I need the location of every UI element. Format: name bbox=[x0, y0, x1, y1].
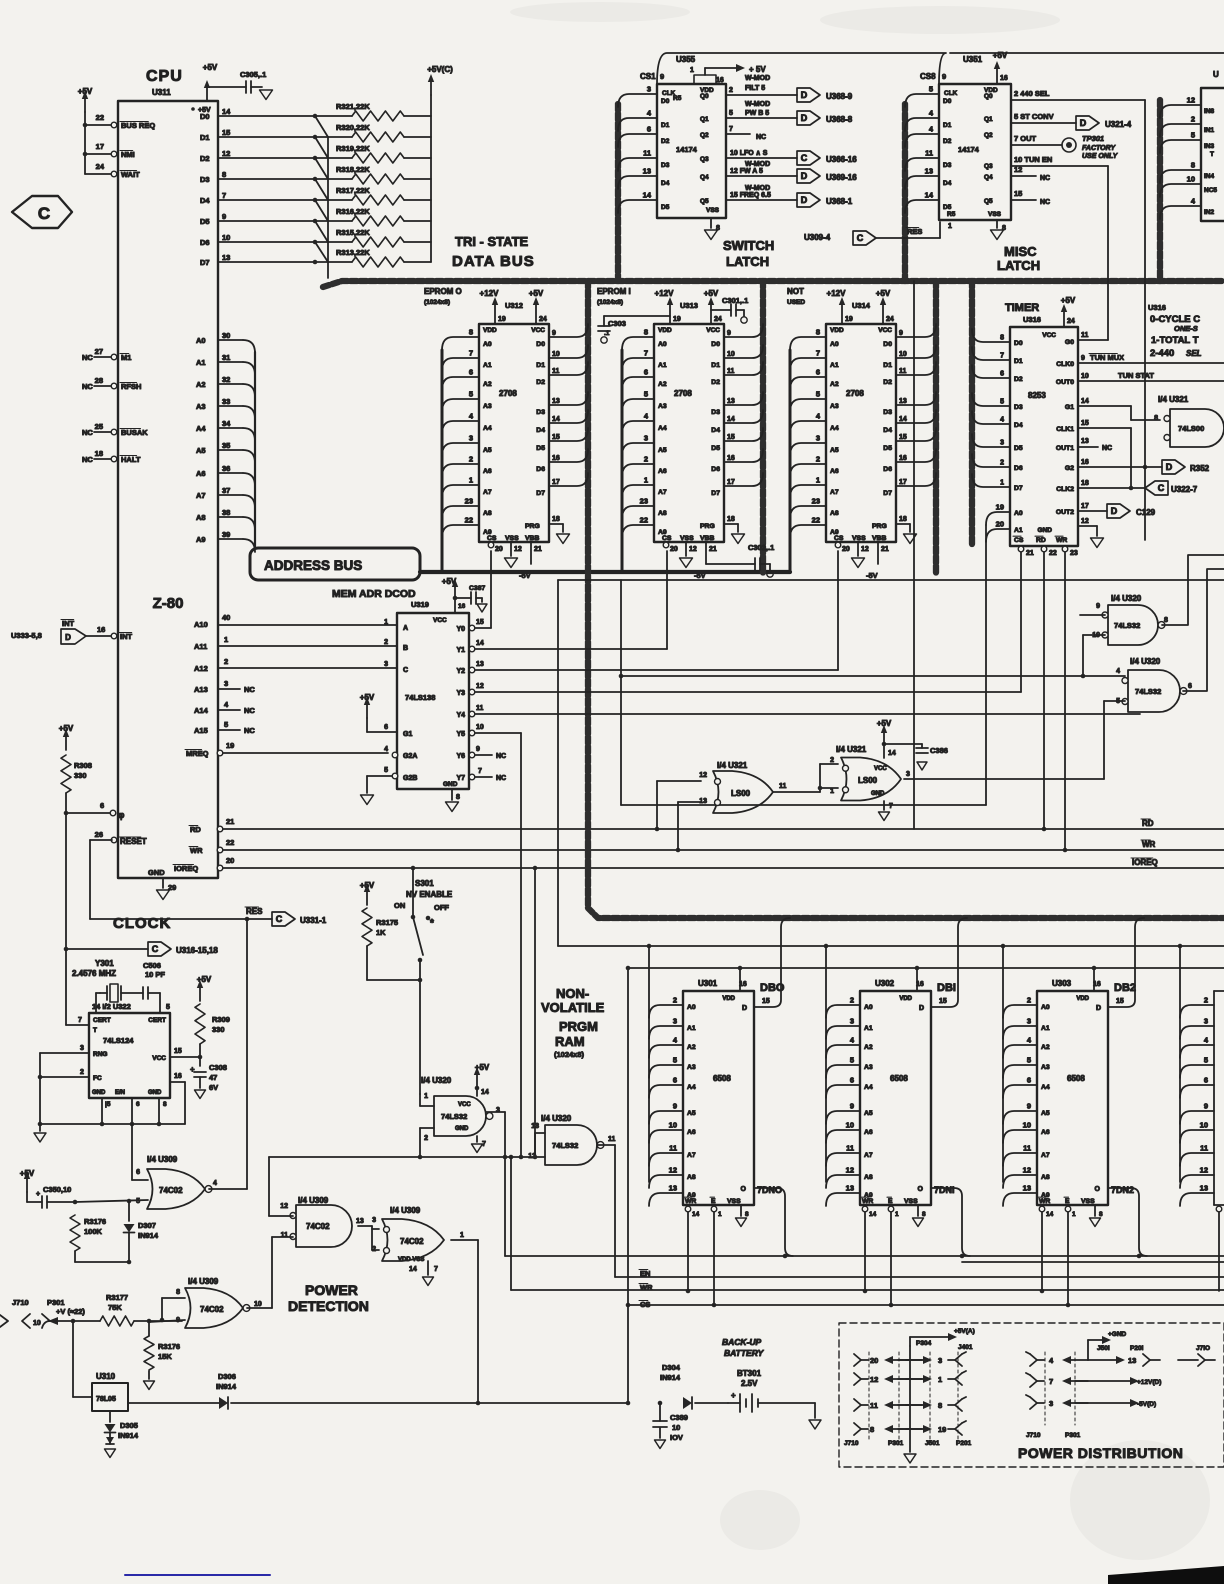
svg-text:9: 9 bbox=[476, 746, 480, 753]
svg-text:A9: A9 bbox=[864, 1192, 873, 1199]
svg-text:10 TUN EN: 10 TUN EN bbox=[1014, 155, 1052, 164]
node U316 D6 pin 2 bbox=[972, 454, 1023, 472]
node U314 VBB pin 21 -5V bbox=[866, 542, 889, 580]
node U316 CLK2 pin 18 bbox=[1056, 480, 1145, 493]
wire eprom2 address branch bbox=[789, 350, 792, 572]
node U312 D3 pin 13 bbox=[536, 392, 588, 416]
svg-text:D3: D3 bbox=[1014, 404, 1023, 411]
svg-text:D1: D1 bbox=[943, 122, 952, 129]
wire +V to U310 bbox=[73, 1321, 92, 1397]
svg-text:A3: A3 bbox=[687, 1064, 696, 1071]
node A5 pin 35 bbox=[196, 441, 255, 463]
wire U309a output to reset net bbox=[209, 1188, 247, 1190]
svg-text:U368-8: U368-8 bbox=[826, 115, 853, 124]
svg-text:6: 6 bbox=[384, 724, 388, 731]
svg-text:3: 3 bbox=[384, 661, 388, 668]
svg-text:11: 11 bbox=[608, 1136, 616, 1143]
svg-text:6: 6 bbox=[850, 1076, 854, 1085]
svg-text:VCC: VCC bbox=[706, 327, 720, 334]
svg-text:8253: 8253 bbox=[1028, 391, 1046, 400]
node Y3 pin 12 bbox=[469, 551, 1021, 695]
node U316 D1 pin 7 bbox=[972, 347, 1023, 365]
resistor R3175 1K bbox=[360, 881, 423, 982]
svg-text:16: 16 bbox=[97, 625, 105, 634]
svg-text:10: 10 bbox=[33, 1320, 41, 1327]
svg-text:13: 13 bbox=[846, 1184, 854, 1193]
svg-text:Q2: Q2 bbox=[700, 132, 709, 139]
svg-text:A0: A0 bbox=[864, 1004, 873, 1011]
svg-text:19: 19 bbox=[996, 503, 1004, 512]
connector J710 right bbox=[1178, 1345, 1215, 1366]
wire data-bus collector bbox=[327, 137, 329, 278]
crystal Y301 2.4576 MHZ bbox=[72, 959, 143, 1002]
svg-text:I/4 U321: I/4 U321 bbox=[836, 745, 867, 754]
svg-text:8: 8 bbox=[456, 794, 460, 801]
node D5 pin 9 bbox=[200, 212, 352, 226]
svg-text:+5V: +5V bbox=[360, 881, 375, 890]
svg-text:16: 16 bbox=[458, 603, 466, 610]
svg-text:330: 330 bbox=[212, 1025, 225, 1034]
node U351 Q1 ST CONV bbox=[984, 112, 1076, 123]
svg-text:20: 20 bbox=[996, 520, 1004, 529]
svg-text:VSS: VSS bbox=[904, 1198, 918, 1205]
svg-text:23: 23 bbox=[640, 497, 648, 506]
node U313 A4 pin 4 bbox=[622, 412, 667, 435]
svg-text:IN2: IN2 bbox=[1204, 209, 1215, 216]
svg-text:Q3: Q3 bbox=[984, 163, 993, 170]
svg-text:Y7: Y7 bbox=[456, 775, 465, 782]
node U316 D5 pin 3 bbox=[972, 434, 1023, 452]
svg-text:D3: D3 bbox=[711, 409, 720, 416]
node U319 pin2 B bbox=[384, 639, 388, 646]
svg-text:IOV: IOV bbox=[670, 1433, 683, 1442]
svg-text:17: 17 bbox=[96, 142, 104, 151]
svg-text:8: 8 bbox=[938, 1401, 942, 1410]
node U313 PRG pin 18 bbox=[724, 516, 745, 544]
svg-text:17: 17 bbox=[1081, 503, 1089, 510]
svg-text:A7: A7 bbox=[687, 1152, 696, 1159]
svg-text:9: 9 bbox=[942, 72, 946, 81]
label U303 bbox=[1052, 979, 1101, 988]
svg-text:1: 1 bbox=[948, 223, 952, 230]
svg-text:2: 2 bbox=[830, 757, 834, 764]
svg-text:NC: NC bbox=[756, 134, 766, 141]
node WR pin 22 bbox=[189, 838, 234, 855]
svg-text:MEM ADR DCOD: MEM ADR DCOD bbox=[332, 588, 416, 600]
wire U320b output bbox=[1183, 569, 1224, 691]
svg-text:16: 16 bbox=[727, 455, 735, 462]
svg-text:D: D bbox=[1166, 462, 1173, 472]
label U301 bbox=[698, 979, 747, 988]
svg-text:D1: D1 bbox=[200, 133, 210, 142]
node U312 A9 pin 22 bbox=[442, 516, 492, 539]
svg-text:A1: A1 bbox=[483, 362, 492, 369]
svg-text:21: 21 bbox=[709, 546, 717, 553]
svg-text:U366-16: U366-16 bbox=[826, 155, 857, 164]
svg-text:NMI: NMI bbox=[121, 150, 135, 159]
svg-text:NC: NC bbox=[1102, 445, 1112, 452]
svg-text:2-440: 2-440 bbox=[1150, 348, 1174, 359]
node U301 A1 pin 3 bbox=[649, 1017, 696, 1040]
timer U316 8253 bbox=[1010, 327, 1078, 546]
svg-text:15: 15 bbox=[174, 1048, 182, 1055]
svg-text:2 440 SEL: 2 440 SEL bbox=[1014, 89, 1050, 98]
svg-text:40: 40 bbox=[222, 613, 230, 622]
svg-text:C303: C303 bbox=[608, 319, 626, 328]
svg-text:74C02: 74C02 bbox=[306, 1222, 330, 1231]
svg-text:2708: 2708 bbox=[674, 389, 692, 398]
svg-text:.1: .1 bbox=[604, 330, 610, 337]
wire U309c output bbox=[247, 1307, 272, 1309]
svg-text:3: 3 bbox=[1049, 1399, 1053, 1408]
svg-text:23: 23 bbox=[812, 497, 820, 506]
svg-text:13: 13 bbox=[1200, 1184, 1208, 1193]
svg-text:IN1: IN1 bbox=[1204, 127, 1215, 134]
svg-text:22: 22 bbox=[226, 838, 234, 847]
svg-text:Q0: Q0 bbox=[984, 93, 993, 100]
gate U321c 1/4 74LS00 bbox=[1154, 395, 1224, 447]
eprom U313 2708 bbox=[654, 324, 724, 542]
flag R352 bbox=[1162, 460, 1210, 474]
svg-text:3: 3 bbox=[816, 434, 820, 443]
svg-text:C129: C129 bbox=[1136, 508, 1156, 517]
svg-text:13: 13 bbox=[727, 398, 735, 405]
svg-text:14: 14 bbox=[727, 416, 735, 423]
node RFSH pin 28 NC bbox=[82, 376, 141, 391]
svg-text:D0: D0 bbox=[1014, 340, 1023, 347]
svg-text:13: 13 bbox=[1081, 438, 1089, 445]
svg-text:10: 10 bbox=[1200, 1121, 1208, 1130]
svg-text:3: 3 bbox=[673, 1017, 677, 1026]
node RESET pin 26 bbox=[95, 830, 147, 846]
node U313 CS pin 20 bbox=[663, 542, 678, 553]
svg-text:VCC: VCC bbox=[874, 766, 887, 772]
svg-text:VSS: VSS bbox=[706, 207, 720, 214]
svg-text:+12V(D): +12V(D) bbox=[1137, 1379, 1161, 1386]
svg-text:2: 2 bbox=[1204, 996, 1208, 1005]
svg-text:3: 3 bbox=[1000, 440, 1004, 447]
svg-text:RESET: RESET bbox=[120, 837, 147, 846]
svg-text:2.4576 MHZ: 2.4576 MHZ bbox=[72, 969, 116, 978]
svg-text:5: 5 bbox=[644, 390, 648, 399]
wire U304 address drop bbox=[1179, 946, 1181, 1182]
svg-text:12: 12 bbox=[669, 1166, 677, 1175]
svg-text:VSS: VSS bbox=[680, 535, 694, 542]
node U303 WR pin 14 bbox=[1039, 1206, 1053, 1293]
node U312 A4 pin 4 bbox=[442, 412, 492, 435]
wire x628 drop bbox=[626, 966, 631, 1406]
svg-text:15: 15 bbox=[552, 434, 560, 441]
svg-text:NON-: NON- bbox=[556, 986, 589, 1001]
svg-text:+ 5V: + 5V bbox=[749, 65, 766, 74]
svg-text:D1: D1 bbox=[661, 122, 670, 129]
svg-text:+5V: +5V bbox=[197, 975, 212, 984]
svg-text:NC: NC bbox=[496, 753, 506, 760]
svg-text:15: 15 bbox=[222, 128, 230, 137]
svg-text:1: 1 bbox=[718, 1211, 722, 1218]
svg-text:Q5: Q5 bbox=[984, 198, 993, 205]
svg-text:D1: D1 bbox=[1014, 358, 1023, 365]
label U316 timer notes bbox=[1148, 303, 1202, 359]
svg-text:A8: A8 bbox=[864, 1174, 873, 1181]
node U302 A4 pin 6 bbox=[826, 1076, 873, 1099]
svg-text:D0: D0 bbox=[883, 341, 892, 348]
svg-text:1: 1 bbox=[938, 1375, 942, 1384]
cpu GND pin 29 bbox=[148, 868, 176, 900]
svg-text:36: 36 bbox=[222, 464, 230, 473]
node Y1 pin 14 bbox=[469, 551, 667, 652]
node U302 WR pin 14 bbox=[862, 1206, 876, 1293]
node IOREQ pin 20 bbox=[173, 856, 234, 873]
svg-text:10: 10 bbox=[727, 351, 735, 358]
svg-text:D306: D306 bbox=[218, 1372, 236, 1381]
label TIMER bbox=[1005, 302, 1041, 324]
flag U369-16 bbox=[797, 169, 857, 183]
node U316 A0 pin 19 bbox=[986, 503, 1023, 526]
node U303 A8 pin 12 bbox=[1003, 1166, 1050, 1189]
svg-text:6: 6 bbox=[647, 125, 651, 134]
node U351 D4 pin 13 bbox=[905, 167, 952, 190]
svg-text:3: 3 bbox=[644, 434, 648, 443]
node U314 PRG pin 18 bbox=[896, 516, 917, 544]
svg-text:R321,22K: R321,22K bbox=[336, 102, 370, 111]
svg-text:IN914: IN914 bbox=[660, 1373, 681, 1382]
svg-text:9: 9 bbox=[1027, 1102, 1031, 1111]
labels J710 P301 J501 P201 bbox=[844, 1440, 972, 1447]
svg-text:C: C bbox=[1158, 483, 1165, 493]
svg-text:10: 10 bbox=[254, 1301, 262, 1308]
svg-text:Y3: Y3 bbox=[456, 690, 465, 697]
svg-text:VDD: VDD bbox=[722, 996, 735, 1002]
svg-text:FC: FC bbox=[93, 1075, 102, 1082]
node A11 pin 1 bbox=[194, 635, 397, 651]
wire timer A0/A1 bus drop bbox=[621, 525, 986, 805]
svg-text:6508: 6508 bbox=[890, 1074, 908, 1083]
svg-text:3: 3 bbox=[850, 1017, 854, 1026]
node U301 A8 pin 12 bbox=[649, 1166, 696, 1189]
svg-text:22: 22 bbox=[640, 516, 648, 525]
node U352 IN8 pin 12 bbox=[1160, 96, 1215, 119]
svg-text:WR: WR bbox=[1039, 1198, 1050, 1205]
svg-text:VCC: VCC bbox=[152, 1055, 166, 1062]
+12V at U314 pin 19 bbox=[827, 289, 853, 324]
svg-text:D5: D5 bbox=[536, 445, 545, 452]
svg-text:21: 21 bbox=[881, 546, 889, 553]
node U316 OUT2 pin 17 bbox=[1056, 503, 1107, 516]
svg-text:BUSAK: BUSAK bbox=[121, 428, 148, 437]
svg-text:5: 5 bbox=[929, 85, 933, 94]
svg-text:(1024x8): (1024x8) bbox=[424, 299, 450, 306]
svg-text:TIMER: TIMER bbox=[1005, 302, 1039, 314]
wire bus-merge diagonal bbox=[315, 221, 328, 242]
svg-text:NC: NC bbox=[244, 685, 255, 694]
ground battery bbox=[809, 1403, 821, 1429]
svg-text:SEL: SEL bbox=[1186, 349, 1202, 358]
ram U303 6508 bbox=[1037, 991, 1108, 1205]
svg-text:14: 14 bbox=[1081, 398, 1089, 405]
svg-text:8: 8 bbox=[745, 1211, 749, 1218]
node U355 D4 pin 13 bbox=[618, 167, 670, 190]
svg-text:14: 14 bbox=[481, 1089, 489, 1096]
node U351 D1 pin 4 bbox=[905, 109, 952, 132]
svg-text:DBI: DBI bbox=[937, 982, 956, 994]
wire bus-merge diagonal bbox=[315, 158, 328, 179]
svg-text:ONE-S: ONE-S bbox=[1174, 324, 1198, 333]
resistor R3176b 15K bbox=[144, 1321, 181, 1390]
svg-text:D307: D307 bbox=[138, 1221, 156, 1230]
latch U351 14174 bbox=[920, 55, 1011, 220]
svg-text:W-MOD: W-MOD bbox=[745, 185, 770, 192]
svg-text:TP301: TP301 bbox=[1082, 134, 1104, 143]
label MEM ADR DCOD bbox=[332, 588, 429, 609]
svg-text:A0: A0 bbox=[196, 336, 206, 345]
svg-text:A3: A3 bbox=[658, 403, 667, 410]
svg-text:C308: C308 bbox=[209, 1063, 227, 1072]
+5V(C) pullup rail bbox=[427, 65, 453, 262]
wire E/N drop junction bbox=[128, 1201, 130, 1221]
svg-text:I/4 U321: I/4 U321 bbox=[1158, 395, 1189, 404]
svg-text:Y5: Y5 bbox=[456, 731, 465, 738]
node A2 pin 32 bbox=[196, 375, 255, 397]
svg-text:A8: A8 bbox=[830, 510, 839, 517]
svg-text:CS: CS bbox=[662, 535, 672, 542]
node U301 E pin 1 bbox=[711, 1206, 722, 1307]
node U316 G2 pin 16 bbox=[1065, 459, 1162, 472]
svg-text:1: 1 bbox=[1072, 1211, 1076, 1218]
ground U309d pins 14 7 bbox=[409, 1261, 438, 1286]
rope riser U351 bbox=[902, 104, 908, 281]
node NMI pin 17 bbox=[85, 142, 135, 159]
svg-text:D7: D7 bbox=[711, 490, 720, 497]
node U314 A9 pin 22 bbox=[790, 516, 839, 539]
svg-text:15K: 15K bbox=[158, 1352, 172, 1361]
ram U304 partial bbox=[1214, 991, 1224, 1205]
svg-text:74LS32: 74LS32 bbox=[1135, 687, 1161, 696]
svg-text:CS: CS bbox=[487, 535, 497, 542]
node U312 A7 pin 1 bbox=[442, 476, 492, 499]
svg-text:CPU: CPU bbox=[146, 68, 183, 85]
label POWER DETECTION bbox=[288, 1282, 369, 1314]
svg-text:2: 2 bbox=[729, 87, 733, 94]
svg-text:11: 11 bbox=[643, 149, 651, 158]
svg-text:+GND: +GND bbox=[1108, 1331, 1127, 1338]
svg-text:6: 6 bbox=[673, 1076, 677, 1085]
svg-text:Q4: Q4 bbox=[700, 174, 709, 181]
svg-text:19: 19 bbox=[673, 316, 681, 323]
latch U355 14174 bbox=[640, 55, 726, 218]
node U313 A5 pin 3 bbox=[622, 434, 667, 457]
svg-text:14: 14 bbox=[222, 107, 231, 116]
svg-text:18: 18 bbox=[552, 516, 560, 523]
wire DBI drop from rope bbox=[931, 918, 967, 1007]
svg-text:A2: A2 bbox=[1041, 1044, 1050, 1051]
node Y5 pin 10 bbox=[469, 724, 521, 1157]
node U313 A9 pin 22 bbox=[622, 516, 667, 539]
svg-text:U321-4: U321-4 bbox=[1105, 120, 1132, 129]
wire VDD stub U302 bbox=[915, 966, 920, 991]
svg-text:RD: RD bbox=[190, 825, 201, 834]
svg-text:2: 2 bbox=[469, 455, 473, 464]
wire U322 bottom pins to gnd rail bbox=[38, 1098, 185, 1126]
resistor R309 330 bbox=[195, 975, 230, 1057]
svg-text:+12V: +12V bbox=[480, 289, 500, 298]
svg-text:Y4: Y4 bbox=[456, 712, 465, 719]
svg-text:WAIT: WAIT bbox=[121, 170, 140, 179]
svg-text:D0: D0 bbox=[661, 98, 670, 105]
blue reference line bbox=[125, 1574, 270, 1576]
node A1 pin 31 bbox=[196, 353, 255, 375]
svg-text:Y1: Y1 bbox=[456, 647, 465, 654]
node U352 NC5 pin 10 bbox=[1160, 175, 1217, 198]
svg-text:U316-15,18: U316-15,18 bbox=[176, 946, 218, 955]
node U313 A6 pin 2 bbox=[622, 455, 667, 478]
node WAIT pin 24 bbox=[85, 162, 140, 179]
svg-text:D: D bbox=[742, 1005, 747, 1012]
svg-text:6: 6 bbox=[644, 368, 648, 377]
svg-text:I/4 U320: I/4 U320 bbox=[1111, 594, 1142, 603]
svg-text:U311: U311 bbox=[152, 88, 171, 97]
svg-text:A5: A5 bbox=[687, 1110, 696, 1117]
svg-text:7: 7 bbox=[478, 768, 482, 775]
node U313 A7 pin 1 bbox=[622, 476, 667, 499]
svg-text:A6: A6 bbox=[864, 1129, 873, 1136]
svg-text:D7: D7 bbox=[883, 490, 892, 497]
svg-text:24: 24 bbox=[1067, 318, 1075, 325]
node U312 D4 pin 14 bbox=[536, 410, 588, 434]
svg-text:CLK2: CLK2 bbox=[1056, 486, 1074, 493]
node U304 WR bbox=[1216, 1206, 1222, 1291]
svg-text:A4: A4 bbox=[1041, 1084, 1050, 1091]
svg-text:RD: RD bbox=[1036, 537, 1046, 544]
diode D307 IN914 bbox=[124, 1221, 159, 1264]
svg-text:4: 4 bbox=[1116, 668, 1120, 675]
node U314 A8 pin 23 bbox=[790, 497, 839, 520]
svg-text:7: 7 bbox=[434, 1266, 438, 1273]
ground U301 VSS pin 8 bbox=[736, 1205, 750, 1227]
svg-text:IN4: IN4 bbox=[1204, 173, 1215, 180]
svg-text:24: 24 bbox=[96, 162, 105, 171]
svg-text:NOT: NOT bbox=[787, 287, 804, 296]
node U312 VBB pin 21 -5V bbox=[519, 542, 542, 580]
svg-text:A9: A9 bbox=[687, 1192, 696, 1199]
svg-text:A5: A5 bbox=[658, 447, 667, 454]
svg-text:D5: D5 bbox=[1014, 445, 1023, 452]
svg-text:VCC: VCC bbox=[1042, 332, 1056, 339]
label DBI bbox=[937, 982, 956, 1005]
svg-text:D6: D6 bbox=[536, 466, 545, 473]
resistor R308 330 bbox=[59, 724, 110, 815]
svg-text:6: 6 bbox=[136, 1101, 140, 1108]
svg-text:13: 13 bbox=[476, 661, 484, 668]
svg-text:74C02: 74C02 bbox=[400, 1237, 424, 1246]
svg-text:D2: D2 bbox=[1014, 376, 1023, 383]
svg-text:A3: A3 bbox=[196, 402, 206, 411]
node U302 A1 pin 3 bbox=[826, 1017, 873, 1040]
svg-text:13: 13 bbox=[643, 167, 651, 176]
svg-text:VBB: VBB bbox=[525, 535, 539, 542]
svg-text:74LS00: 74LS00 bbox=[1178, 424, 1204, 433]
svg-text:Y6: Y6 bbox=[456, 753, 465, 760]
svg-text:A5: A5 bbox=[864, 1110, 873, 1117]
+5V at U316 pin 24 bbox=[1061, 296, 1076, 327]
svg-text:A7: A7 bbox=[1041, 1152, 1050, 1159]
node U314 A4 pin 4 bbox=[790, 412, 839, 435]
svg-text:2.5V: 2.5V bbox=[741, 1379, 758, 1388]
svg-text:CLK: CLK bbox=[944, 90, 958, 97]
svg-text:16: 16 bbox=[1000, 75, 1008, 82]
gate U320c 1/4 74LS32 bbox=[421, 1076, 500, 1142]
node U301 A0 pin 2 bbox=[649, 996, 696, 1019]
